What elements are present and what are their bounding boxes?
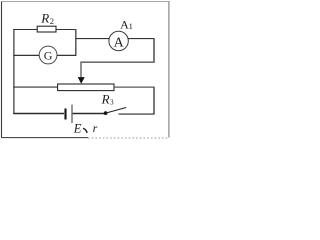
svg-text:A: A	[114, 35, 125, 50]
switch blade (open)	[106, 108, 127, 114]
svg-text:1: 1	[129, 21, 133, 31]
battery E r: short negative plate	[64, 109, 66, 120]
wire: right connector of parallel section (node)	[75, 29, 77, 56]
svg-text:E: E	[73, 121, 82, 135]
label A1	[120, 17, 133, 31]
svg-text:r: r	[93, 121, 98, 135]
resistor R2	[37, 26, 56, 32]
svg-text:2: 2	[50, 16, 54, 26]
wire: right vertical lower	[153, 87, 155, 114]
ammeter A	[109, 31, 128, 50]
wire: top branch right of R2	[56, 29, 76, 31]
wire: battery to switch	[73, 113, 104, 115]
battery E r: long positive plate	[71, 105, 73, 123]
rheostat (slide resistor)	[58, 84, 114, 91]
wire: galvanometer branch left	[13, 54, 39, 56]
wire: wiper feed vertical	[80, 62, 82, 77]
wire: ammeter output	[128, 38, 154, 40]
wire: top branch left of R2	[13, 29, 37, 31]
border frame (decorative)	[1, 1, 169, 138]
svg-text:R: R	[101, 91, 110, 106]
wire: galvanometer branch right	[57, 54, 77, 56]
svg-text:R: R	[40, 10, 49, 25]
label R3	[101, 91, 114, 106]
wire: switch fixed contact to corner	[119, 113, 155, 115]
wiper arrow onto rheostat	[78, 77, 85, 84]
svg-text:G: G	[44, 48, 53, 62]
svg-text:3: 3	[110, 97, 114, 106]
wire: wiper feed horizontal	[80, 61, 154, 63]
wire: left vertical bus	[13, 30, 15, 115]
wire: rheostat right terminal	[114, 86, 155, 88]
label R2	[40, 10, 54, 26]
wire: rheostat left terminal	[13, 86, 57, 88]
switch pivot junction dot	[104, 111, 108, 115]
wire: ammeter input	[76, 38, 109, 40]
galvanometer G	[39, 46, 57, 64]
wire: right vertical upper	[153, 39, 155, 63]
wire: bottom bus left	[13, 113, 64, 115]
label E, r	[73, 121, 98, 136]
